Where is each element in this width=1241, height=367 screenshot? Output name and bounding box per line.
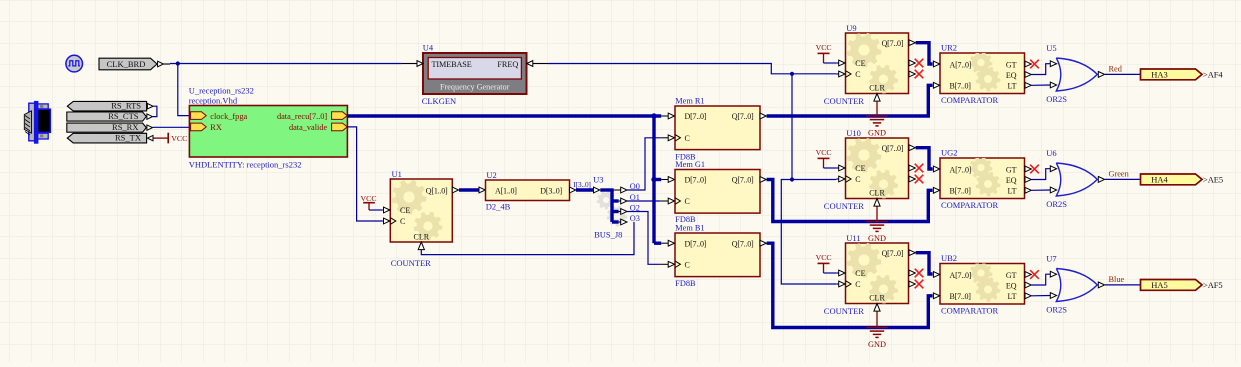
power VCC at U1 bbox=[361, 194, 377, 210]
pin U9 CEO bbox=[909, 60, 915, 66]
pin U11 CEO bbox=[909, 270, 915, 276]
svg-text:C: C bbox=[685, 134, 690, 143]
memory Mem G1 bbox=[675, 170, 760, 214]
svg-text:Mem G1: Mem G1 bbox=[675, 160, 705, 169]
svg-text:U2: U2 bbox=[486, 170, 496, 180]
pin U10 CE bbox=[836, 165, 845, 171]
svg-text:Frequency Generator: Frequency Generator bbox=[440, 83, 510, 92]
svg-text:B[7..0]: B[7..0] bbox=[950, 82, 972, 91]
svg-text:A[7..0]: A[7..0] bbox=[950, 165, 972, 174]
pin Mem B1 C bbox=[660, 261, 680, 267]
wire RS_TX to VCC bbox=[156, 137, 168, 139]
svg-text:reception.Vhd: reception.Vhd bbox=[189, 95, 238, 105]
svg-text:>AE5: >AE5 bbox=[1203, 175, 1223, 185]
pin of port CLK_BRD bbox=[158, 61, 170, 67]
svg-text:LT: LT bbox=[1007, 82, 1016, 91]
pin U9 CE bbox=[836, 60, 845, 66]
pin Mem G1 Q bbox=[760, 177, 766, 183]
bus U9 Q to comparator A bbox=[916, 43, 933, 64]
junction FREQ clock net bbox=[790, 72, 794, 76]
wire VCC to U1 CE bbox=[369, 209, 382, 211]
svg-text:RS_RX: RS_RX bbox=[112, 122, 138, 132]
comparator UG2 bbox=[940, 156, 1025, 198]
pin U1 CLR with clear wire bbox=[418, 222, 634, 255]
port CLK_BRD bbox=[99, 58, 157, 70]
svg-text:OR2S: OR2S bbox=[1046, 304, 1067, 314]
svg-text:U9: U9 bbox=[846, 23, 856, 33]
pin data_valide bbox=[289, 123, 347, 132]
DB9 serial connector J1 bbox=[24, 101, 50, 144]
decoder U2 bbox=[486, 180, 570, 201]
svg-text:D[7..0]: D[7..0] bbox=[685, 112, 707, 121]
wire U7 output to port HA5 bbox=[1105, 284, 1141, 286]
svg-text:VCC: VCC bbox=[361, 194, 377, 203]
svg-text:UR2: UR2 bbox=[941, 43, 957, 53]
pin U4 FREQ bbox=[527, 61, 548, 67]
bus stub Mem B1 D bbox=[654, 241, 661, 244]
pin UB2 EQ bbox=[1025, 282, 1031, 288]
pin U3 O0 bbox=[614, 187, 627, 193]
pin U9 C bbox=[836, 71, 851, 77]
svg-text:VCC: VCC bbox=[816, 253, 832, 262]
pin U10 TC bbox=[909, 176, 915, 182]
pin UR2 GT bbox=[1025, 61, 1031, 67]
svg-text:>AF4: >AF4 bbox=[1203, 70, 1223, 80]
pin U6 input 1 bbox=[1050, 166, 1056, 172]
ground GND at U11 bbox=[866, 328, 887, 349]
bus stub Mem G1 D bbox=[654, 178, 661, 181]
no connect X at U9 TC bbox=[915, 70, 924, 79]
pin of port RS_CTS bbox=[147, 114, 153, 119]
wire UB2 LT to U7 bbox=[1032, 295, 1051, 297]
wire O2 to Mem B1 C bbox=[627, 212, 660, 265]
svg-text:GND: GND bbox=[868, 340, 886, 349]
pin UR2 LT bbox=[1025, 82, 1031, 88]
VHDL entity block U_reception_rs232 bbox=[189, 106, 347, 158]
svg-text:U5: U5 bbox=[1046, 43, 1056, 53]
svg-text:GT: GT bbox=[1006, 165, 1017, 174]
svg-text:>AF5: >AF5 bbox=[1203, 280, 1223, 290]
svg-text:FD8B: FD8B bbox=[675, 279, 696, 288]
no connect X at UG2 GT bbox=[1030, 165, 1039, 174]
svg-text:EQ: EQ bbox=[1006, 71, 1017, 80]
svg-text:data_valide: data_valide bbox=[289, 123, 328, 132]
ground GND at U10 bbox=[866, 222, 887, 243]
pin U5 input 2 bbox=[1050, 82, 1056, 88]
port RS_RTS bbox=[67, 101, 146, 111]
port RS_RX bbox=[67, 122, 147, 132]
svg-text:VHDLENTITY: reception_rs232: VHDLENTITY: reception_rs232 bbox=[189, 160, 302, 170]
comparator UB2 bbox=[940, 262, 1025, 304]
pin U6 input 2 bbox=[1050, 187, 1056, 193]
pin UG2 EQ bbox=[1025, 177, 1031, 183]
wire clock to U11 C bbox=[781, 180, 836, 285]
svg-text:A[1..0]: A[1..0] bbox=[495, 186, 517, 195]
or gate U6 bbox=[1056, 163, 1097, 196]
svg-text:GND: GND bbox=[868, 234, 886, 243]
wire UR2 EQ to U5 bbox=[1032, 64, 1051, 75]
pin UG2 GT bbox=[1025, 166, 1031, 172]
svg-text:CE: CE bbox=[400, 206, 410, 215]
svg-text:Red: Red bbox=[1109, 65, 1123, 74]
pin UB2 LT bbox=[1025, 293, 1031, 299]
pin U3 input arrow bbox=[594, 187, 600, 193]
svg-text:UG2: UG2 bbox=[941, 148, 958, 158]
bus vertical to Mem G1 and Mem B1 bbox=[652, 116, 655, 243]
wire U9 CLR to GND bbox=[876, 102, 878, 117]
bus U2 D to U3 bbox=[576, 188, 594, 191]
bus splitter U3 spine bbox=[597, 190, 628, 227]
bus U11 Q to comparator A bbox=[916, 253, 933, 274]
junction bus at Mem G1 bbox=[651, 177, 656, 182]
svg-text:OR2S: OR2S bbox=[1046, 94, 1067, 104]
wire UG2 EQ to U6 bbox=[1032, 169, 1051, 180]
pin of port RS_RTS bbox=[147, 104, 153, 109]
pin Mem R1 C bbox=[660, 135, 680, 141]
pin U9 Q bbox=[909, 40, 915, 46]
svg-text:VCC: VCC bbox=[816, 148, 832, 157]
wire UB2 EQ to U7 bbox=[1032, 274, 1051, 285]
or gate U5 bbox=[1056, 58, 1097, 91]
svg-text:U10: U10 bbox=[846, 128, 861, 138]
no connect X at U11 CEO bbox=[915, 269, 924, 278]
wire U11 CLR to GND bbox=[876, 312, 878, 328]
wire VCC to U10 CE bbox=[824, 167, 837, 169]
wire clock distribution vertical bbox=[792, 74, 836, 180]
svg-text:Q[7..0]: Q[7..0] bbox=[882, 39, 904, 48]
pin U7 output bbox=[1098, 282, 1104, 288]
pin RX bbox=[191, 123, 222, 132]
pin U1 C bbox=[382, 218, 396, 224]
svg-text:C: C bbox=[685, 261, 690, 270]
port RS_TX bbox=[67, 133, 146, 143]
pin U7 input 1 bbox=[1050, 271, 1056, 277]
svg-text:VCC: VCC bbox=[816, 43, 832, 52]
svg-text:C: C bbox=[685, 197, 690, 206]
svg-text:GND: GND bbox=[868, 128, 886, 137]
pin of port RS_RX bbox=[147, 125, 153, 130]
pin data_recu[7..0] bbox=[277, 112, 347, 121]
svg-text:A[7..0]: A[7..0] bbox=[950, 60, 972, 69]
wire VCC to U11 CE bbox=[824, 272, 837, 274]
svg-text:COMPARATOR: COMPARATOR bbox=[941, 95, 998, 105]
pin UG2 LT bbox=[1025, 187, 1031, 193]
svg-text:RX: RX bbox=[210, 123, 222, 132]
no connect X at U9 CEO bbox=[915, 59, 924, 68]
svg-text:HA5: HA5 bbox=[1151, 280, 1168, 290]
svg-text:CE: CE bbox=[855, 59, 865, 68]
svg-text:TIMEBASE: TIMEBASE bbox=[432, 60, 472, 69]
junction clock at U10 C bbox=[790, 177, 794, 181]
port HA3 bbox=[1141, 69, 1203, 80]
svg-text:A[7..0]: A[7..0] bbox=[950, 271, 972, 280]
pin U10 Q bbox=[909, 145, 915, 151]
bus Mem R1 Q to UR2 B bbox=[767, 85, 933, 116]
power VCC at U10 bbox=[816, 148, 832, 168]
svg-text:UB2: UB2 bbox=[941, 253, 957, 263]
svg-text:RS_CTS: RS_CTS bbox=[108, 111, 139, 121]
power VCC at RS_TX bbox=[168, 133, 187, 144]
svg-text:COUNTER: COUNTER bbox=[824, 201, 864, 211]
pin Mem B1 D bbox=[661, 240, 674, 246]
pin U11 CE bbox=[836, 270, 845, 276]
svg-text:VCC: VCC bbox=[171, 134, 187, 143]
port RS_CTS bbox=[67, 111, 147, 121]
svg-text:Q[7..0]: Q[7..0] bbox=[882, 249, 904, 258]
svg-text:COUNTER: COUNTER bbox=[824, 96, 864, 106]
svg-text:U11: U11 bbox=[846, 233, 860, 243]
pin U3 O2 bbox=[619, 209, 627, 215]
power VCC at U11 bbox=[816, 253, 832, 273]
svg-text:clock_fpga: clock_fpga bbox=[210, 112, 247, 121]
counter U9 bbox=[846, 33, 909, 94]
pin clock_fpga bbox=[191, 112, 248, 121]
wire RS_RX to RX pin bbox=[153, 126, 190, 128]
bus U10 Q to comparator A bbox=[916, 148, 933, 169]
svg-text:U_reception_rs232: U_reception_rs232 bbox=[189, 86, 254, 96]
svg-text:COUNTER: COUNTER bbox=[824, 306, 864, 316]
svg-text:EQ: EQ bbox=[1006, 281, 1017, 290]
pin U10 C bbox=[836, 176, 851, 182]
svg-text:B[7..0]: B[7..0] bbox=[950, 187, 972, 196]
clock source icon bbox=[66, 55, 83, 72]
svg-text:O3: O3 bbox=[630, 214, 640, 223]
svg-text:Q[7..0]: Q[7..0] bbox=[732, 112, 754, 121]
svg-text:I[3..0]: I[3..0] bbox=[573, 180, 591, 189]
svg-text:EQ: EQ bbox=[1006, 176, 1017, 185]
bus data_recu to memories bbox=[347, 114, 661, 117]
pin of port RS_TX bbox=[147, 135, 155, 140]
wire U6 output to port HA4 bbox=[1105, 178, 1141, 180]
svg-text:U4: U4 bbox=[423, 43, 434, 53]
pin U5 output bbox=[1098, 72, 1104, 78]
counter U1 bbox=[390, 179, 452, 242]
wire VCC to U9 CE bbox=[824, 62, 837, 64]
pin U6 output bbox=[1098, 177, 1104, 183]
pin U7 input 2 bbox=[1050, 293, 1056, 299]
pin Mem R1 D bbox=[661, 113, 674, 119]
pin Mem G1 D bbox=[661, 177, 674, 183]
pin Mem G1 C bbox=[660, 198, 680, 204]
svg-text:Q[7..0]: Q[7..0] bbox=[732, 239, 754, 248]
svg-text:Q[7..0]: Q[7..0] bbox=[732, 176, 754, 185]
memory Mem R1 bbox=[675, 106, 760, 150]
pin U11 CLR bbox=[874, 304, 880, 312]
counter U11 bbox=[846, 243, 909, 304]
pin U9 CLR bbox=[874, 94, 880, 102]
pin UR2 A bbox=[933, 61, 939, 67]
pin U11 C bbox=[836, 281, 851, 287]
svg-text:CLR: CLR bbox=[869, 189, 885, 198]
pin U1 CE bbox=[382, 207, 390, 213]
ground GND at U9 bbox=[866, 116, 887, 137]
bus Mem B1 Q to UB2 B bbox=[767, 243, 933, 327]
comparator UR2 bbox=[940, 51, 1025, 93]
or gate U7 bbox=[1056, 269, 1097, 302]
svg-text:U1: U1 bbox=[392, 169, 402, 179]
svg-text:COMPARATOR: COMPARATOR bbox=[941, 200, 998, 210]
no connect X at UB2 GT bbox=[1030, 270, 1039, 279]
svg-text:U6: U6 bbox=[1046, 148, 1056, 158]
svg-text:Q[1..0]: Q[1..0] bbox=[426, 187, 448, 196]
wire data_valide to U1 C bbox=[347, 127, 382, 221]
port HA5 bbox=[1141, 280, 1203, 291]
svg-text:C: C bbox=[855, 70, 860, 79]
svg-text:C: C bbox=[855, 280, 860, 289]
pin UB2 B bbox=[933, 293, 939, 299]
pin U11 Q bbox=[909, 250, 915, 256]
pin Mem B1 Q bbox=[760, 240, 766, 246]
svg-text:CLR: CLR bbox=[414, 233, 430, 242]
svg-text:U3: U3 bbox=[593, 174, 603, 184]
pin UB2 GT bbox=[1025, 272, 1031, 278]
pin UR2 B bbox=[933, 82, 939, 88]
pin U3 O1 bbox=[619, 198, 627, 204]
svg-text:C: C bbox=[855, 175, 860, 184]
svg-text:CE: CE bbox=[855, 269, 865, 278]
pin U2 D output bbox=[570, 187, 576, 193]
svg-text:C: C bbox=[400, 217, 405, 226]
wire FREQ to counters clock bbox=[548, 64, 836, 74]
no connect X at U10 TC bbox=[915, 175, 924, 184]
port HA4 bbox=[1141, 174, 1203, 185]
bus Mem G1 Q to UG2 B bbox=[767, 180, 933, 222]
pin UG2 A bbox=[933, 166, 939, 172]
frequency generator U4 bbox=[423, 53, 527, 94]
pin U3 O3 bbox=[619, 219, 627, 225]
junction CLK_BRD net bbox=[176, 61, 180, 65]
svg-text:Mem R1: Mem R1 bbox=[675, 96, 704, 105]
svg-text:D2_4B: D2_4B bbox=[486, 202, 511, 212]
junction bus at Mem R1 bbox=[651, 113, 656, 118]
pin U10 CEO bbox=[909, 165, 915, 171]
svg-text:D[3..0]: D[3..0] bbox=[540, 186, 562, 195]
svg-text:LT: LT bbox=[1007, 187, 1016, 196]
svg-text:Blue: Blue bbox=[1109, 275, 1125, 284]
no connect X at U11 TC bbox=[915, 280, 924, 289]
wire U5 output to port HA3 bbox=[1105, 73, 1141, 75]
svg-text:GT: GT bbox=[1006, 271, 1017, 280]
svg-text:CE: CE bbox=[855, 164, 865, 173]
pin U10 CLR bbox=[874, 199, 880, 207]
pin UB2 A bbox=[933, 272, 939, 278]
svg-text:Mem B1: Mem B1 bbox=[675, 223, 704, 232]
svg-text:COUNTER: COUNTER bbox=[391, 258, 431, 268]
svg-text:D[7..0]: D[7..0] bbox=[685, 176, 707, 185]
pin U1 Q bbox=[452, 187, 458, 193]
svg-text:RS_RTS: RS_RTS bbox=[111, 101, 141, 111]
svg-text:OR2S: OR2S bbox=[1046, 199, 1067, 209]
wire U10 CLR to GND bbox=[876, 207, 878, 222]
svg-text:FREQ: FREQ bbox=[497, 60, 518, 69]
svg-text:data_recu[7..0]: data_recu[7..0] bbox=[277, 112, 327, 121]
svg-text:HA4: HA4 bbox=[1151, 175, 1168, 185]
pin U5 input 1 bbox=[1050, 61, 1056, 67]
pin Mem R1 Q bbox=[760, 113, 766, 119]
pin UG2 B bbox=[933, 187, 939, 193]
wire CLK_BRD net bbox=[170, 63, 402, 65]
pin U4 TIMEBASE bbox=[402, 61, 424, 67]
svg-text:Q[7..0]: Q[7..0] bbox=[882, 144, 904, 153]
svg-text:B[7..0]: B[7..0] bbox=[950, 292, 972, 301]
svg-text:CLK_BRD: CLK_BRD bbox=[107, 59, 146, 69]
svg-text:D[7..0]: D[7..0] bbox=[685, 239, 707, 248]
svg-text:HA3: HA3 bbox=[1151, 70, 1168, 80]
pin U9 TC bbox=[909, 71, 915, 77]
no connect X at UR2 GT bbox=[1030, 60, 1039, 69]
svg-text:CLR: CLR bbox=[869, 84, 885, 93]
wire UR2 LT to U5 bbox=[1032, 84, 1051, 86]
wire O0 to Mem R1 C bbox=[627, 138, 660, 190]
counter U10 bbox=[846, 138, 909, 199]
memory Mem B1 bbox=[675, 233, 760, 277]
wire CLK_BRD down to clock_fpga bbox=[178, 64, 190, 116]
wire UG2 LT to U6 bbox=[1032, 189, 1051, 191]
bus U1 Q to U2 A bbox=[459, 188, 479, 191]
svg-text:GT: GT bbox=[1006, 60, 1017, 69]
svg-text:CLR: CLR bbox=[869, 294, 885, 303]
pin UR2 EQ bbox=[1025, 72, 1031, 78]
svg-text:CLKGEN: CLKGEN bbox=[422, 96, 456, 106]
power VCC at U9 bbox=[816, 43, 832, 63]
svg-text:RS_TX: RS_TX bbox=[115, 133, 141, 143]
svg-text:BUS_J8: BUS_J8 bbox=[594, 229, 622, 239]
svg-text:COMPARATOR: COMPARATOR bbox=[941, 306, 998, 316]
no connect X at U10 CEO bbox=[915, 164, 924, 173]
pin U11 TC bbox=[909, 281, 915, 287]
svg-text:Green: Green bbox=[1109, 170, 1130, 179]
svg-text:LT: LT bbox=[1007, 292, 1016, 301]
wire RS_RTS to RS_CTS loopback bbox=[153, 106, 157, 116]
pin U2 A arrow bbox=[479, 187, 485, 193]
svg-text:U7: U7 bbox=[1046, 254, 1056, 264]
wire O1 to Mem G1 C bbox=[627, 200, 660, 202]
